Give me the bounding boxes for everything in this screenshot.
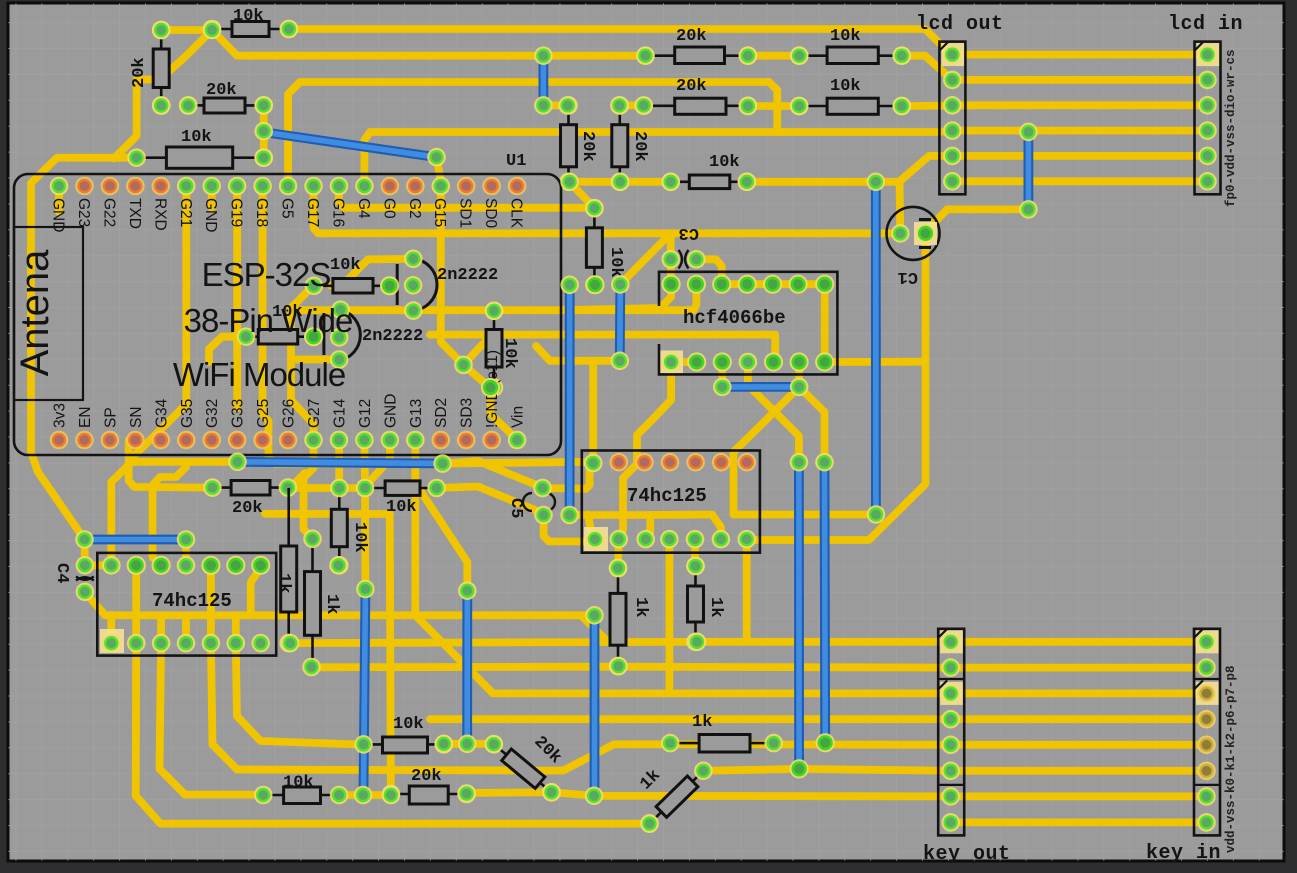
wire row8 to key area: [951, 819, 1207, 827]
wire IC2 pin1b branch: [588, 515, 595, 540]
wire G14 down to 10k-vm: [335, 440, 343, 488]
svg-text:G18: G18: [253, 198, 270, 227]
wire IC1 p4b stub: [182, 615, 190, 643]
pads IC2 bottom row: [586, 530, 756, 549]
ESP-32S bottom row pads: [50, 431, 527, 450]
wire row y488 right to C5b: [437, 487, 544, 514]
resistor 20k vertical v1: [559, 96, 597, 191]
wire IC2 p4b to row3: [666, 539, 674, 693]
wire blueA bottom bus to IC2: [570, 515, 651, 539]
resistor 1k-A vertical: [609, 559, 650, 676]
wire pad2 down-left to 10k-tw: [114, 30, 212, 159]
wire blueH right to C5a: [443, 461, 543, 488]
wire IC1 p3t riser: [153, 467, 187, 565]
wire 10k-mL down to blue3: [361, 488, 369, 589]
wire y514 drop to row7: [390, 514, 391, 795]
svg-text:G17: G17: [304, 198, 321, 227]
wire hcf pRb to blue jumper R: [799, 387, 824, 462]
svg-text:G26: G26: [281, 399, 298, 428]
resistor 10k top-left: [203, 7, 299, 38]
wire row1 long: [290, 642, 951, 643]
svg-text:20k: 20k: [676, 77, 707, 96]
svg-text:U1: U1: [506, 152, 526, 171]
pads 10k-vm bottom: [329, 556, 348, 575]
svg-text:SD3: SD3: [459, 398, 476, 428]
svg-text:G4: G4: [355, 198, 372, 219]
svg-text:C4: C4: [52, 563, 71, 583]
svg-text:C1: C1: [898, 267, 918, 286]
svg-text:lcd out: lcd out: [916, 13, 1004, 36]
svg-text:2n2222: 2n2222: [362, 327, 423, 346]
pads row y56: [636, 46, 911, 65]
wire branch down to 74hc125-2 pin1: [589, 361, 597, 463]
resistor 20k bottom: [382, 767, 476, 804]
resistor 1k-1 vertical: [274, 488, 298, 652]
pads 10k-ve2 bottom: [481, 378, 500, 397]
wire 10k-ve top on row: [490, 306, 498, 314]
svg-text:GND: GND: [50, 198, 67, 232]
svg-text:C3: C3: [679, 223, 699, 242]
pads row7 cluster: [354, 783, 561, 804]
wire blueLH left pad down to C4a: [81, 540, 89, 566]
wire y514 bus to IC2 p6b: [650, 515, 721, 540]
wire G13 branch to blue4 top: [415, 483, 467, 588]
pads blue diag ends: [254, 122, 445, 167]
svg-text:74hc125: 74hc125: [627, 485, 707, 507]
wire G18 down to y464: [263, 186, 437, 464]
wire 10k-1L down via x290: [291, 286, 314, 440]
wire Q1 h branch under 10k: [331, 259, 413, 286]
wire GND-esp diag to 10k-mL: [365, 440, 390, 488]
wire x733 to blue875 bottom: [734, 511, 876, 519]
resistor 20k mid: [203, 478, 297, 518]
wire hcf pRb down-left to x733: [734, 387, 800, 515]
pads blue-LH: [75, 530, 195, 549]
wire junction to 10k-ve2 bottom: [464, 365, 491, 388]
resistor 10k vertical e11: [485, 302, 519, 397]
jumper wire blue4 x467: [462, 596, 472, 737]
svg-text:10k: 10k: [830, 77, 861, 96]
pads row2 end: [609, 657, 628, 676]
wire C5b down to IC2 p1b: [544, 515, 595, 542]
wire hcf p7b to C1 vertical: [825, 358, 926, 366]
wire lcd rows 1-5: [952, 51, 1207, 59]
resistor 10k row2: [790, 77, 911, 115]
svg-text:CLK: CLK: [508, 198, 525, 229]
wire IC2 p7b down to row1: [743, 539, 751, 642]
svg-text:10k: 10k: [830, 27, 861, 46]
antenna box: [14, 227, 83, 400]
svg-text:10k: 10k: [500, 338, 519, 369]
wire lcd-out pin5 link: [900, 156, 953, 182]
jumper wire blue3 G12 lane: [364, 595, 366, 790]
svg-text:SP: SP: [102, 407, 119, 428]
pads IC1 bottom row: [102, 634, 270, 653]
svg-text:G25: G25: [255, 399, 272, 428]
wire row3 ramp and run: [417, 617, 951, 693]
jumper wire blue-LH left horizontal: [91, 535, 181, 545]
svg-text:G5: G5: [279, 198, 296, 219]
svg-text:G32: G32: [204, 399, 221, 428]
pads below hcf: [713, 378, 808, 397]
svg-text:G14: G14: [331, 398, 348, 428]
wire row5 middle: [444, 740, 494, 748]
wire row y182 long: [570, 178, 671, 186]
pads 10k-ve: [560, 199, 629, 295]
svg-text:10k: 10k: [393, 715, 424, 734]
resistor 1k-B vertical: [686, 557, 725, 651]
jumper wire long diagonal top-left: [264, 132, 437, 157]
pads IC2 top row: [584, 453, 756, 472]
wire C4a to IC1 p1t link: [85, 561, 111, 569]
wire hcf p1b down-left: [619, 362, 671, 539]
wire C3b to hcf pin3: [696, 259, 721, 284]
svg-text:SD1: SD1: [457, 198, 474, 228]
pads blue4 top: [458, 581, 477, 600]
svg-text:G27: G27: [306, 399, 323, 428]
jumper wire blue-H long horizontal: [243, 462, 437, 464]
wire row y488: [288, 484, 365, 492]
jumper wire blueL tall: [794, 468, 804, 762]
pads row8 end: [640, 814, 659, 833]
wire 10k-tw left to board edge down: [31, 158, 137, 540]
wire IC1 p2b stub: [132, 615, 140, 643]
resistor 10k wide: [127, 128, 273, 168]
wire GND stub: [55, 186, 63, 212]
IC hcf4066be outline: [659, 272, 837, 375]
wire IC1 p5b long run to key-out p5: [211, 643, 951, 771]
capacitor C3: [661, 223, 705, 269]
svg-text:10k: 10k: [330, 256, 361, 275]
svg-text:20k: 20k: [411, 767, 442, 786]
svg-text:SN: SN: [128, 406, 145, 428]
svg-text:10k: 10k: [283, 774, 314, 793]
wire IC1 internal bus y615 long: [105, 611, 595, 619]
header key in: [1146, 629, 1221, 865]
resistor 20k row1: [636, 27, 757, 65]
wire row2 long: [312, 663, 951, 672]
pads row y182: [560, 173, 885, 192]
wire row2 y56: [212, 30, 645, 56]
svg-text:20k: 20k: [630, 131, 649, 162]
wire hcf top row bus: [722, 280, 825, 288]
wire G17 to C1 left long y233: [314, 186, 901, 233]
wire Q2 top stub: [337, 306, 345, 314]
svg-text:74hc125: 74hc125: [152, 590, 232, 612]
wire hcf p4b to blue jumper L: [748, 362, 799, 462]
wire row y105 mid link: [619, 102, 643, 110]
pads IC1 top row: [102, 556, 270, 575]
resistor 10k vertical esp: [585, 199, 625, 294]
wire blue4 bottom to C1 transistor: [926, 209, 1029, 233]
svg-text:G13: G13: [408, 399, 425, 428]
svg-text:TXD: TXD: [126, 198, 143, 229]
svg-text:WiFi Module: WiFi Module: [173, 356, 345, 393]
svg-text:RXD: RXD: [151, 198, 168, 231]
wire blue diag end to G15: [437, 157, 441, 186]
IC 74hc125 left outline: [97, 553, 276, 656]
wire 20k-v1 bottom diag to 10k-ve top: [570, 182, 595, 208]
resistor 20k row2: [634, 77, 757, 115]
resistor 10k row y182: [661, 153, 756, 191]
svg-text:10k: 10k: [606, 247, 625, 278]
wire G4 up to row y132 to lcd-out pin4: [364, 131, 952, 186]
svg-text:key out: key out: [923, 843, 1011, 866]
svg-text:20k: 20k: [676, 27, 707, 46]
pads y310 row: [485, 302, 504, 321]
wire IC1 p6b stub: [232, 615, 240, 643]
svg-text:G21: G21: [177, 198, 194, 227]
svg-text:Vin: Vin: [510, 406, 527, 428]
resistor 20k diagonal: [485, 733, 565, 802]
jumper wire top short vertical: [539, 62, 549, 100]
pads row5: [435, 735, 504, 754]
wire C3a to hcf pin1: [667, 259, 675, 284]
svg-text:key in: key in: [1146, 842, 1221, 865]
svg-text:vdd-vss-k0-k1-k2-p6-p7-p8: vdd-vss-k0-k1-k2-p6-p7-p8: [1224, 665, 1238, 853]
svg-text:10k: 10k: [709, 153, 740, 172]
wire IC1 p7t riser: [251, 568, 261, 616]
svg-text:20k: 20k: [232, 499, 263, 518]
header lcd out: [916, 13, 1004, 194]
resistor 10k row1: [790, 27, 911, 65]
wire row y514: [265, 510, 289, 518]
pads blue tall tops: [790, 453, 886, 524]
wire G27 staircase to 1k-2: [304, 440, 314, 539]
svg-text:SD0: SD0: [482, 198, 499, 229]
svg-text:20k: 20k: [578, 131, 597, 162]
pads row1 end: [688, 633, 707, 652]
resistor 10k bottom-left: [254, 774, 349, 805]
resistor 1k diagonal: [637, 762, 713, 833]
svg-text:G23: G23: [75, 198, 92, 227]
pads blueB: [585, 606, 604, 805]
svg-text:G12: G12: [357, 399, 374, 428]
svg-text:G35: G35: [179, 399, 196, 428]
pads row y105 cluster: [152, 46, 653, 114]
resistor 20k top-left row2: [179, 81, 273, 115]
wire 10k q2 left tail: [209, 337, 246, 362]
wire x128 drop to 20k-mL: [129, 456, 213, 488]
wire hcf internal right vertical: [821, 284, 829, 362]
transistor Q1 2n2222: [380, 249, 498, 319]
wire hcf bottom p1-p2 link: [671, 358, 697, 366]
wire x128 drop to blueH: [129, 440, 238, 462]
jumper wire blueR tall: [820, 468, 831, 737]
wire row2 right of 20k: [748, 52, 799, 60]
wire blueLH right pad down to IC1 p4t: [182, 540, 190, 566]
wire G5 up to long row y82: [288, 82, 777, 186]
svg-text:1k: 1k: [706, 597, 725, 617]
wire Q2 bottom to x290: [291, 356, 339, 364]
svg-text:2n2222: 2n2222: [437, 266, 498, 285]
wire 20k-mR diag to G27 lane: [289, 473, 305, 489]
svg-text:10k: 10k: [233, 7, 264, 26]
wire IC1 p1b stub: [107, 615, 115, 643]
wire 1k-B top feed: [691, 539, 699, 565]
resistor 10k q2: [237, 303, 323, 346]
wire blueH right to IC2 p1t: [443, 462, 594, 464]
svg-text:G22: G22: [100, 198, 117, 227]
svg-text:Antena: Antena: [13, 249, 57, 377]
wire row7 right: [467, 792, 951, 796]
svg-text:10k: 10k: [181, 128, 212, 147]
pads row2 y106: [739, 97, 911, 116]
pads C5 area row y514: [560, 506, 579, 525]
wire bus ramp to row1: [581, 615, 608, 642]
wire row y310 Q2top to hcf pin2: [290, 284, 696, 310]
wire row y105 right of 20k: [748, 102, 799, 110]
header key out: [923, 629, 1011, 866]
resistor 10k vertical mid: [330, 479, 369, 575]
svg-text:G34: G34: [153, 398, 170, 428]
svg-text:GND: GND: [202, 198, 219, 232]
wire row7 middle: [259, 791, 267, 799]
wire G13 down to y615 bus: [411, 440, 419, 615]
jumper wire blue1 x569: [565, 291, 575, 509]
wire C3 top stub: [667, 233, 675, 259]
resistor 20k vertical v2: [611, 96, 650, 191]
wire row y514 right: [289, 510, 390, 518]
wire C5a into IC2 pin1: [543, 463, 594, 489]
ESP-32S module U1 outline: [14, 174, 561, 455]
wire row y360 tail: [536, 346, 620, 361]
wire lcd-out pin6 to lcd-in pin6: [952, 177, 1207, 185]
pads lcd blue jumper: [1019, 123, 1038, 219]
capacitor C1 transistor circle: [887, 207, 940, 286]
pads 1k-1 bottom: [281, 634, 300, 653]
svg-text:3v3: 3v3: [52, 403, 69, 428]
svg-text:1k: 1k: [692, 713, 712, 732]
capacitor C5: [506, 479, 555, 525]
wire row y334 to hcf pin5: [430, 335, 775, 362]
ESP-32S top row pads: [50, 177, 527, 196]
wire IC1 p3b to row7 start: [160, 643, 264, 795]
pads 1k-2 bottom junction: [302, 658, 321, 677]
wire C3 junction diag: [620, 237, 667, 284]
svg-text:10k: 10k: [350, 522, 369, 553]
capacitor C4: [52, 556, 94, 601]
svg-text:G16: G16: [329, 198, 346, 227]
wire G16 row y208: [339, 186, 595, 208]
svg-text:GND: GND: [382, 394, 399, 428]
pads top-left cluster: [152, 20, 298, 40]
wire row4 run: [430, 715, 951, 723]
svg-text:hcf4066be: hcf4066be: [683, 307, 786, 329]
svg-text:ESP-32S: ESP-32S: [202, 256, 331, 293]
pads blue2 bottom: [611, 352, 630, 371]
resistor 10k bottom-mid: [354, 715, 453, 754]
wire 10k-ve2 bottom to Vin: [491, 388, 517, 440]
svg-text:1k: 1k: [322, 594, 341, 614]
resistor 20k vertical left: [130, 21, 171, 115]
svg-text:20k: 20k: [130, 57, 149, 88]
svg-text:20k: 20k: [206, 81, 237, 100]
IC 74hc125 right outline: [582, 451, 760, 553]
wire G19 down interior: [233, 186, 241, 408]
ESP-32S top row pin labels: [50, 198, 525, 232]
transistor Q2 2n2222: [304, 300, 423, 368]
wire C4b diag to bus: [85, 592, 105, 615]
wire row y105 to lcd-out pin3: [902, 102, 953, 110]
wire IC1 p5b stub: [207, 615, 215, 643]
svg-text:G19: G19: [228, 198, 245, 227]
wire IC1 p5t drop: [207, 565, 215, 615]
wire G15 down to junction pad: [441, 186, 464, 365]
pads 1k A B tops: [609, 557, 705, 578]
wire G12 down to 10k-mL: [360, 440, 368, 488]
svg-text:lcd in: lcd in: [1168, 13, 1243, 36]
wire branch down to C1 left: [896, 182, 905, 234]
resistor 10k q1: [305, 256, 399, 295]
svg-text:G33: G33: [230, 399, 247, 428]
pads junction G15: [454, 356, 473, 375]
wire IC1 p2b to row8: [136, 643, 650, 824]
wire IC1 p2t drop: [132, 565, 140, 615]
pads blue3 top: [356, 580, 375, 599]
svg-text:1k: 1k: [631, 597, 650, 617]
jumper wire x875 long vertical: [871, 188, 881, 508]
jumper wire lcd row4 vertical: [1024, 138, 1034, 204]
wire IC1 p6b to row5: [236, 643, 364, 745]
svg-text:SD2: SD2: [433, 398, 450, 428]
svg-text:38-Pin Wide: 38-Pin Wide: [184, 302, 353, 339]
wire hcf pin2 feed: [560, 284, 671, 310]
resistor 1k-2 vertical: [303, 530, 341, 666]
wire row y182 right: [747, 178, 900, 186]
wire row y105 link: [543, 102, 567, 110]
wire row2 to lcd-out pin2: [902, 56, 953, 80]
pads hcf bottom row: [662, 352, 835, 371]
header lcd in: [1168, 13, 1243, 194]
svg-text:G2: G2: [406, 198, 423, 219]
wire 1k-A top feed: [614, 539, 623, 568]
wire junction pad up to y334 row: [464, 337, 491, 365]
wire row7 links: [339, 791, 391, 799]
wire IC1 p3b stub: [157, 615, 165, 643]
jumper wire hcf bottom horizontal: [730, 382, 792, 392]
resistor 1k bottom: [661, 713, 783, 752]
ESP-32S bottom row pin labels: [52, 350, 527, 428]
svg-text:fp0-vdd-vss-dio-wr-cs: fp0-vdd-vss-dio-wr-cs: [1224, 49, 1238, 207]
jumper wire blue2 x620: [615, 291, 625, 355]
pads row6 blue bottoms: [790, 733, 835, 778]
wire row 10k-20k top-left link: [161, 26, 212, 34]
wire hcf p3b stub: [718, 362, 726, 387]
wire hcf p6b stub: [795, 362, 803, 387]
wire C1 right down long: [747, 233, 926, 540]
wire top row1 to lcd-out pin1: [289, 29, 952, 56]
svg-text:G15: G15: [431, 198, 448, 227]
wire G21 down to IC1 p1t: [111, 186, 186, 565]
wire left column pads link: [260, 105, 268, 157]
svg-text:G0: G0: [380, 198, 397, 219]
wire row6 right: [703, 769, 950, 771]
svg-text:10k: 10k: [386, 498, 417, 517]
pads blue-H ends: [228, 453, 452, 473]
wire GND2 stub: [208, 186, 216, 208]
jumper wire blueB short: [590, 621, 600, 789]
pads hcf top row: [662, 275, 835, 294]
wire key rows 1-7 to key-in: [951, 638, 1207, 646]
svg-text:EN: EN: [77, 406, 94, 428]
resistor 10k mid: [356, 479, 446, 517]
module text labels: [173, 256, 353, 393]
